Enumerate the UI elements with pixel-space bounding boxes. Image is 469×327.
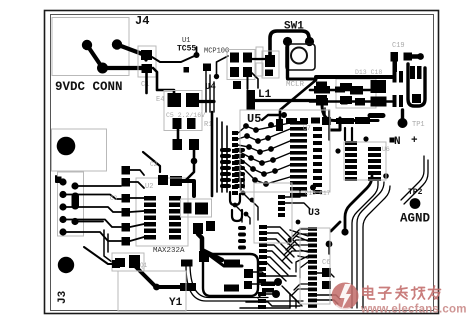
wire L1 to right [255,99,318,102]
via near U6 [363,136,368,141]
char shao [412,287,425,299]
char fa [396,286,407,299]
wire thick snake center [198,234,222,260]
wire top right horizontal row0 [316,75,392,79]
wire thick top of U6 [370,113,383,118]
vias bottom center [274,278,282,286]
wires J3 to U2 [63,186,121,241]
svg-text:J4: J4 [135,14,149,28]
board outline outer [45,11,439,314]
IC U5 centre vias and stub traces [238,123,290,190]
IC U2 socket silkscreen [136,178,188,246]
pads col upper U3 [278,195,285,217]
IC U3 right pad column long [308,227,317,308]
pad U1 [203,64,211,72]
connector J3 pin1 square [56,177,62,183]
capacitor E4 pad left [168,93,182,107]
capacitor E4 pad right [186,93,199,107]
svg-text:MAX232A: MAX232A [153,247,185,255]
connector J3 silkscreen [58,172,84,236]
svg-text:MCLR: MCLR [286,81,305,89]
svg-text:AGND: AGND [400,212,431,226]
wire diag into U2 top [143,152,160,172]
test point TP2 pad [410,198,421,209]
svg-text:N: N [394,136,401,148]
svg-text:E4: E4 [156,96,164,104]
wires MCP down to L1 [247,77,249,89]
watermark logo [332,283,359,311]
row3 wire with corner up [322,104,378,121]
wire into SW1 feed [252,58,265,60]
connector J4 silkscreen [52,18,129,76]
pads row below U5 label [281,112,287,118]
silkscreen outlines scattered [240,110,330,192]
IC U2 inner pad columns [144,196,181,240]
svg-text:C5 2.2/16V: C5 2.2/16V [166,112,205,119]
pad left of N [390,138,395,143]
connector J3 pads [59,178,66,185]
diode D13 pad [404,53,413,61]
wire C19 down [393,62,398,73]
capacitor C1 pad top [141,50,152,60]
crystal Y1 body outline [203,254,258,296]
resistor R2 pads [173,139,183,150]
pads right of U2 [184,203,192,214]
connector J4 pad 3 [97,63,108,74]
wire thick L right of U2 [180,181,194,196]
switch SW1 feed pad [265,55,275,67]
capacitor C6 pads [322,268,331,277]
vertical traces left of C7 [104,230,112,262]
IC U2 top pad [158,175,168,185]
svg-text:MCP100: MCP100 [204,48,229,56]
small pads left of C6 [244,269,253,278]
char dian [363,286,375,299]
thin vertical traces U1 to U5 [206,71,214,112]
row2 pads and wire [310,100,392,103]
pad below SW1 feed [265,70,273,77]
svg-text:U2: U2 [145,183,153,191]
row3 pads [322,117,370,125]
IC U7 pads [286,118,297,124]
svg-text:www.elecfans.com: www.elecfans.com [360,304,467,316]
switch SW1 pin pad A [283,37,292,46]
svg-text:D13 C18: D13 C18 [355,69,382,76]
capacitor C1 pad bottom [142,64,153,73]
pad blob below L1 [276,119,283,131]
crystal Y1 pad left [180,283,196,291]
wire J4 square pads to caps [144,55,147,60]
diode D13 bar [412,54,420,59]
board outline inner [51,15,434,311]
wire J4 pad1 to pad3 [87,45,143,68]
capacitor C7 pads bottom-left [115,258,125,267]
switch SW1 wire down [286,42,289,79]
wire J4 pin3 bus down left side [56,176,63,182]
capacitor C5 silkscreen [164,91,202,131]
IC U2 left pad column [122,166,131,246]
wire U4 to MCP pads [217,56,229,77]
wires bottom center jogs [240,272,300,308]
IC U3 left pad column [258,225,267,309]
via near U1 [194,52,200,58]
wire thick stub [331,222,340,231]
U2 second top pad [170,176,182,186]
wires fan diag lower-left of U3 [235,193,302,308]
switch SW1 button [291,48,307,64]
char zi [379,288,392,300]
wire SW1 bottom horizontal [288,78,317,81]
capacitor C18 vertical bars lower [393,95,397,107]
switch SW1 wire arc [270,31,309,60]
via below R2 [191,158,198,165]
big black rect upper [371,80,387,93]
vertical thin traces right of U5 [324,108,326,124]
trace bus down from C1 [145,73,148,93]
wires fan from U3 to bottom right [267,190,310,281]
wire thick L corners right-middle [330,118,340,130]
IC U5 right wide pad column [290,121,307,197]
svg-text:C2: C2 [150,161,158,168]
pad right of U7 [311,118,320,124]
svg-text:9VDC CONN: 9VDC CONN [55,80,123,94]
svg-text:+: + [411,135,418,147]
svg-text:U5: U5 [247,112,261,126]
wire caps down [177,129,180,140]
svg-text:TC55: TC55 [177,45,196,54]
pads right of SW1 [316,82,327,93]
wire MCLR diagonal [280,80,316,119]
via lower [326,241,333,248]
capacitor C5 pad left [173,118,182,129]
pads right of crystal [261,282,275,287]
silkscreen rects left of SW1 [256,47,263,60]
svg-text:Y1: Y1 [169,297,183,309]
IC U6 pad columns [345,141,381,181]
thick loop trace right [408,64,425,106]
via U4 [214,74,219,79]
IC U5 far right pad column [313,127,322,194]
inductor L1 pad [247,90,256,110]
connector J4 pad 1 [82,40,92,50]
wire into Y1 [135,266,182,287]
wire R2 to via [193,150,196,158]
wires U2 left pads to inner pads [130,170,144,241]
svg-text:U7: U7 [303,125,311,132]
pad on snake [199,251,209,262]
IC U5 left pad column [232,131,238,195]
via end of thick corner [341,228,348,235]
mounting hole bottom-left [58,257,74,273]
mounting hole top-left [57,137,76,156]
row1 pads and wire [310,89,371,92]
wire vertical bus left of U5 [211,112,214,196]
thin traces hugging crystal [186,266,303,301]
wire from J3 square pad [112,260,120,268]
IC U4 MCP100 pad cluster [230,53,239,63]
svg-text:C6: C6 [322,259,330,267]
U5 lower-left bar columns [220,148,245,188]
silkscreen box Y1 [118,271,186,311]
wire thick outer corner [345,176,372,228]
char you [429,286,441,299]
switch SW1 body outline [286,44,315,70]
wire J4 pad2 to C1 [117,45,145,56]
capacitor C5 pad right [187,118,196,129]
wire C5 right pad to bus [196,100,214,103]
wire from U1 via [152,55,197,62]
svg-text:C13 C17: C13 C17 [305,190,331,197]
svg-text:C19: C19 [392,42,405,50]
wires fan left of U3 column [282,229,308,295]
watermark chinese characters (drawn) [363,286,441,299]
via cluster below U5 [241,191,246,196]
svg-text:J3: J3 [57,290,69,304]
wires concentric corner fan right-middle [352,156,428,308]
wire thick vertical right [401,110,404,123]
capacitor C18 vertical bars upper [393,71,397,83]
wires right of U3 column [317,273,340,304]
battery terminal pad [398,118,408,128]
capacitor C18 pad bars inside loop [410,66,415,79]
capacitor C19 pad [391,52,399,62]
capacitor C1 silkscreen [138,46,156,77]
switch SW1 pin pad B [305,37,314,46]
big black rect lower [371,97,387,107]
connector J4 pad 2 [112,39,122,49]
bar column right of hooks [238,226,246,250]
pad left of crystal top [181,260,193,267]
svg-text:C3: C3 [110,195,118,202]
silkscreen box around mounting hole [52,129,107,171]
hook traces below U5 [230,192,242,221]
svg-text:TP1: TP1 [412,121,425,129]
crystal Y1 inner pads [224,260,240,268]
